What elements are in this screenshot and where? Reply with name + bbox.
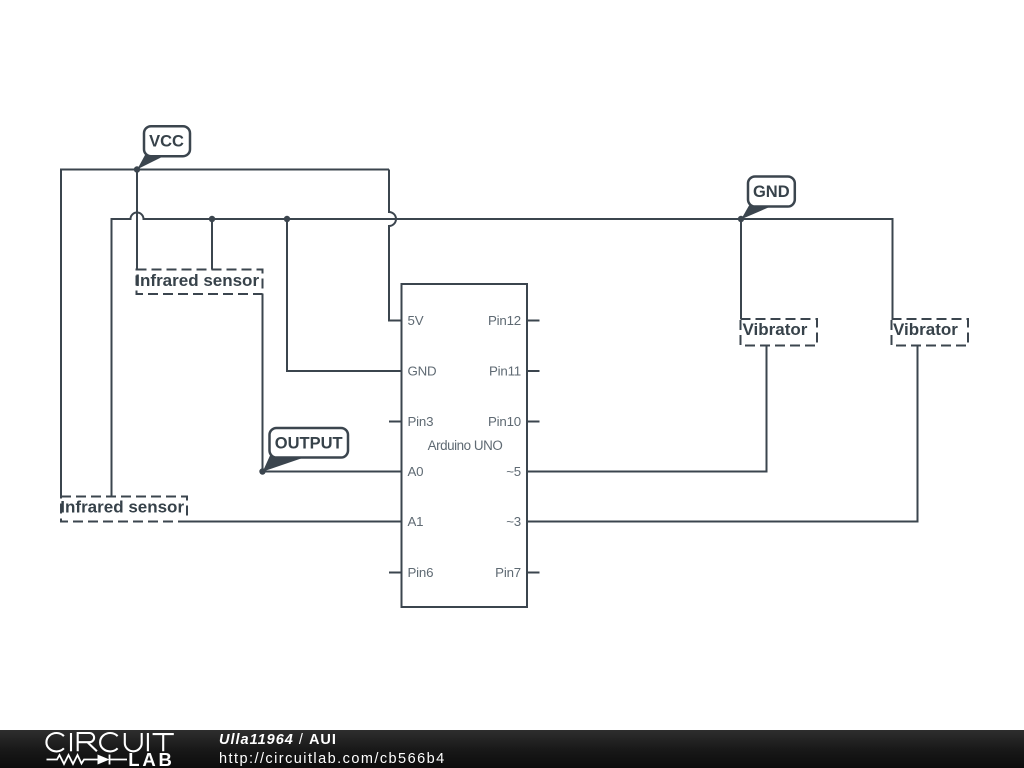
- svg-text:~5: ~5: [506, 464, 521, 479]
- svg-text:~3: ~3: [506, 514, 521, 529]
- wire VCC top rail: [61, 170, 389, 497]
- svg-text:5V: 5V: [408, 313, 424, 328]
- op-amp U1: Arduino UNO box: [402, 284, 528, 607]
- wire ~5 to vibrator1: [527, 346, 767, 472]
- pin stub Pin6: [389, 572, 402, 574]
- svg-text:Vibrator: Vibrator: [893, 320, 958, 339]
- svg-text:GND: GND: [408, 364, 437, 379]
- svg-text:Pin11: Pin11: [489, 364, 521, 379]
- annotation box: vibrator 2: [892, 319, 969, 346]
- svg-text:Ulla11964 / AUI: Ulla11964 / AUI: [219, 732, 337, 748]
- svg-text:GND: GND: [753, 183, 790, 201]
- junction GND bubble: [738, 216, 744, 222]
- svg-text:Arduino UNO: Arduino UNO: [428, 438, 503, 453]
- svg-text:Pin7: Pin7: [495, 565, 521, 580]
- svg-text:OUTPUT: OUTPUT: [275, 434, 343, 452]
- wire ~3 to vibrator2: [527, 346, 918, 522]
- node GND flag: [741, 177, 795, 220]
- CircuitLab logo: CIRCUIT: [46, 733, 173, 751]
- svg-text:Pin6: Pin6: [408, 565, 434, 580]
- pin stub Pin11: [527, 370, 540, 372]
- annotation box: infrared sensor 2: [60, 497, 187, 522]
- svg-text:http://circuitlab.com/cb566b4: http://circuitlab.com/cb566b4: [219, 751, 446, 767]
- svg-text:Infrared sensor: Infrared sensor: [60, 498, 184, 517]
- junction GND column: [284, 216, 290, 222]
- wire GND rail with hop: [112, 213, 893, 497]
- svg-text:Pin3: Pin3: [408, 414, 434, 429]
- wire sensor1 output to A0: [263, 294, 402, 472]
- svg-text:Vibrator: Vibrator: [743, 320, 808, 339]
- junction OUTPUT: [259, 468, 265, 474]
- svg-text:VCC: VCC: [149, 133, 184, 151]
- annotation box: vibrator 1: [741, 319, 818, 346]
- svg-text:Infrared sensor: Infrared sensor: [135, 271, 259, 290]
- svg-text:LAB: LAB: [128, 749, 174, 768]
- wire 5V drop with hop: [389, 170, 402, 321]
- wire rail to GND pin: [287, 219, 402, 371]
- CircuitLab logo: resistor + diode: [47, 755, 128, 765]
- svg-text:Pin12: Pin12: [488, 313, 521, 328]
- pin stub Pin12: [527, 320, 540, 322]
- pin stub Pin7: [527, 572, 540, 574]
- node VCC flag: [137, 126, 190, 169]
- annotation box: infrared sensor 1: [135, 270, 262, 295]
- pin stub Pin10: [527, 421, 540, 423]
- wire rail to sensor1 top: [211, 219, 213, 270]
- node OUTPUT flag: [263, 428, 348, 472]
- junction sensor1 top: [209, 216, 215, 222]
- wire sensor2 output to A1: [187, 521, 402, 523]
- pin stub Pin3: [389, 421, 402, 423]
- junction VCC: [134, 166, 140, 172]
- svg-text:A1: A1: [408, 514, 424, 529]
- svg-text:Pin10: Pin10: [488, 414, 521, 429]
- wire GND bubble drop to vibrator1: [740, 219, 742, 319]
- wire VCC junction to sensor1: [136, 170, 138, 270]
- svg-text:A0: A0: [408, 464, 424, 479]
